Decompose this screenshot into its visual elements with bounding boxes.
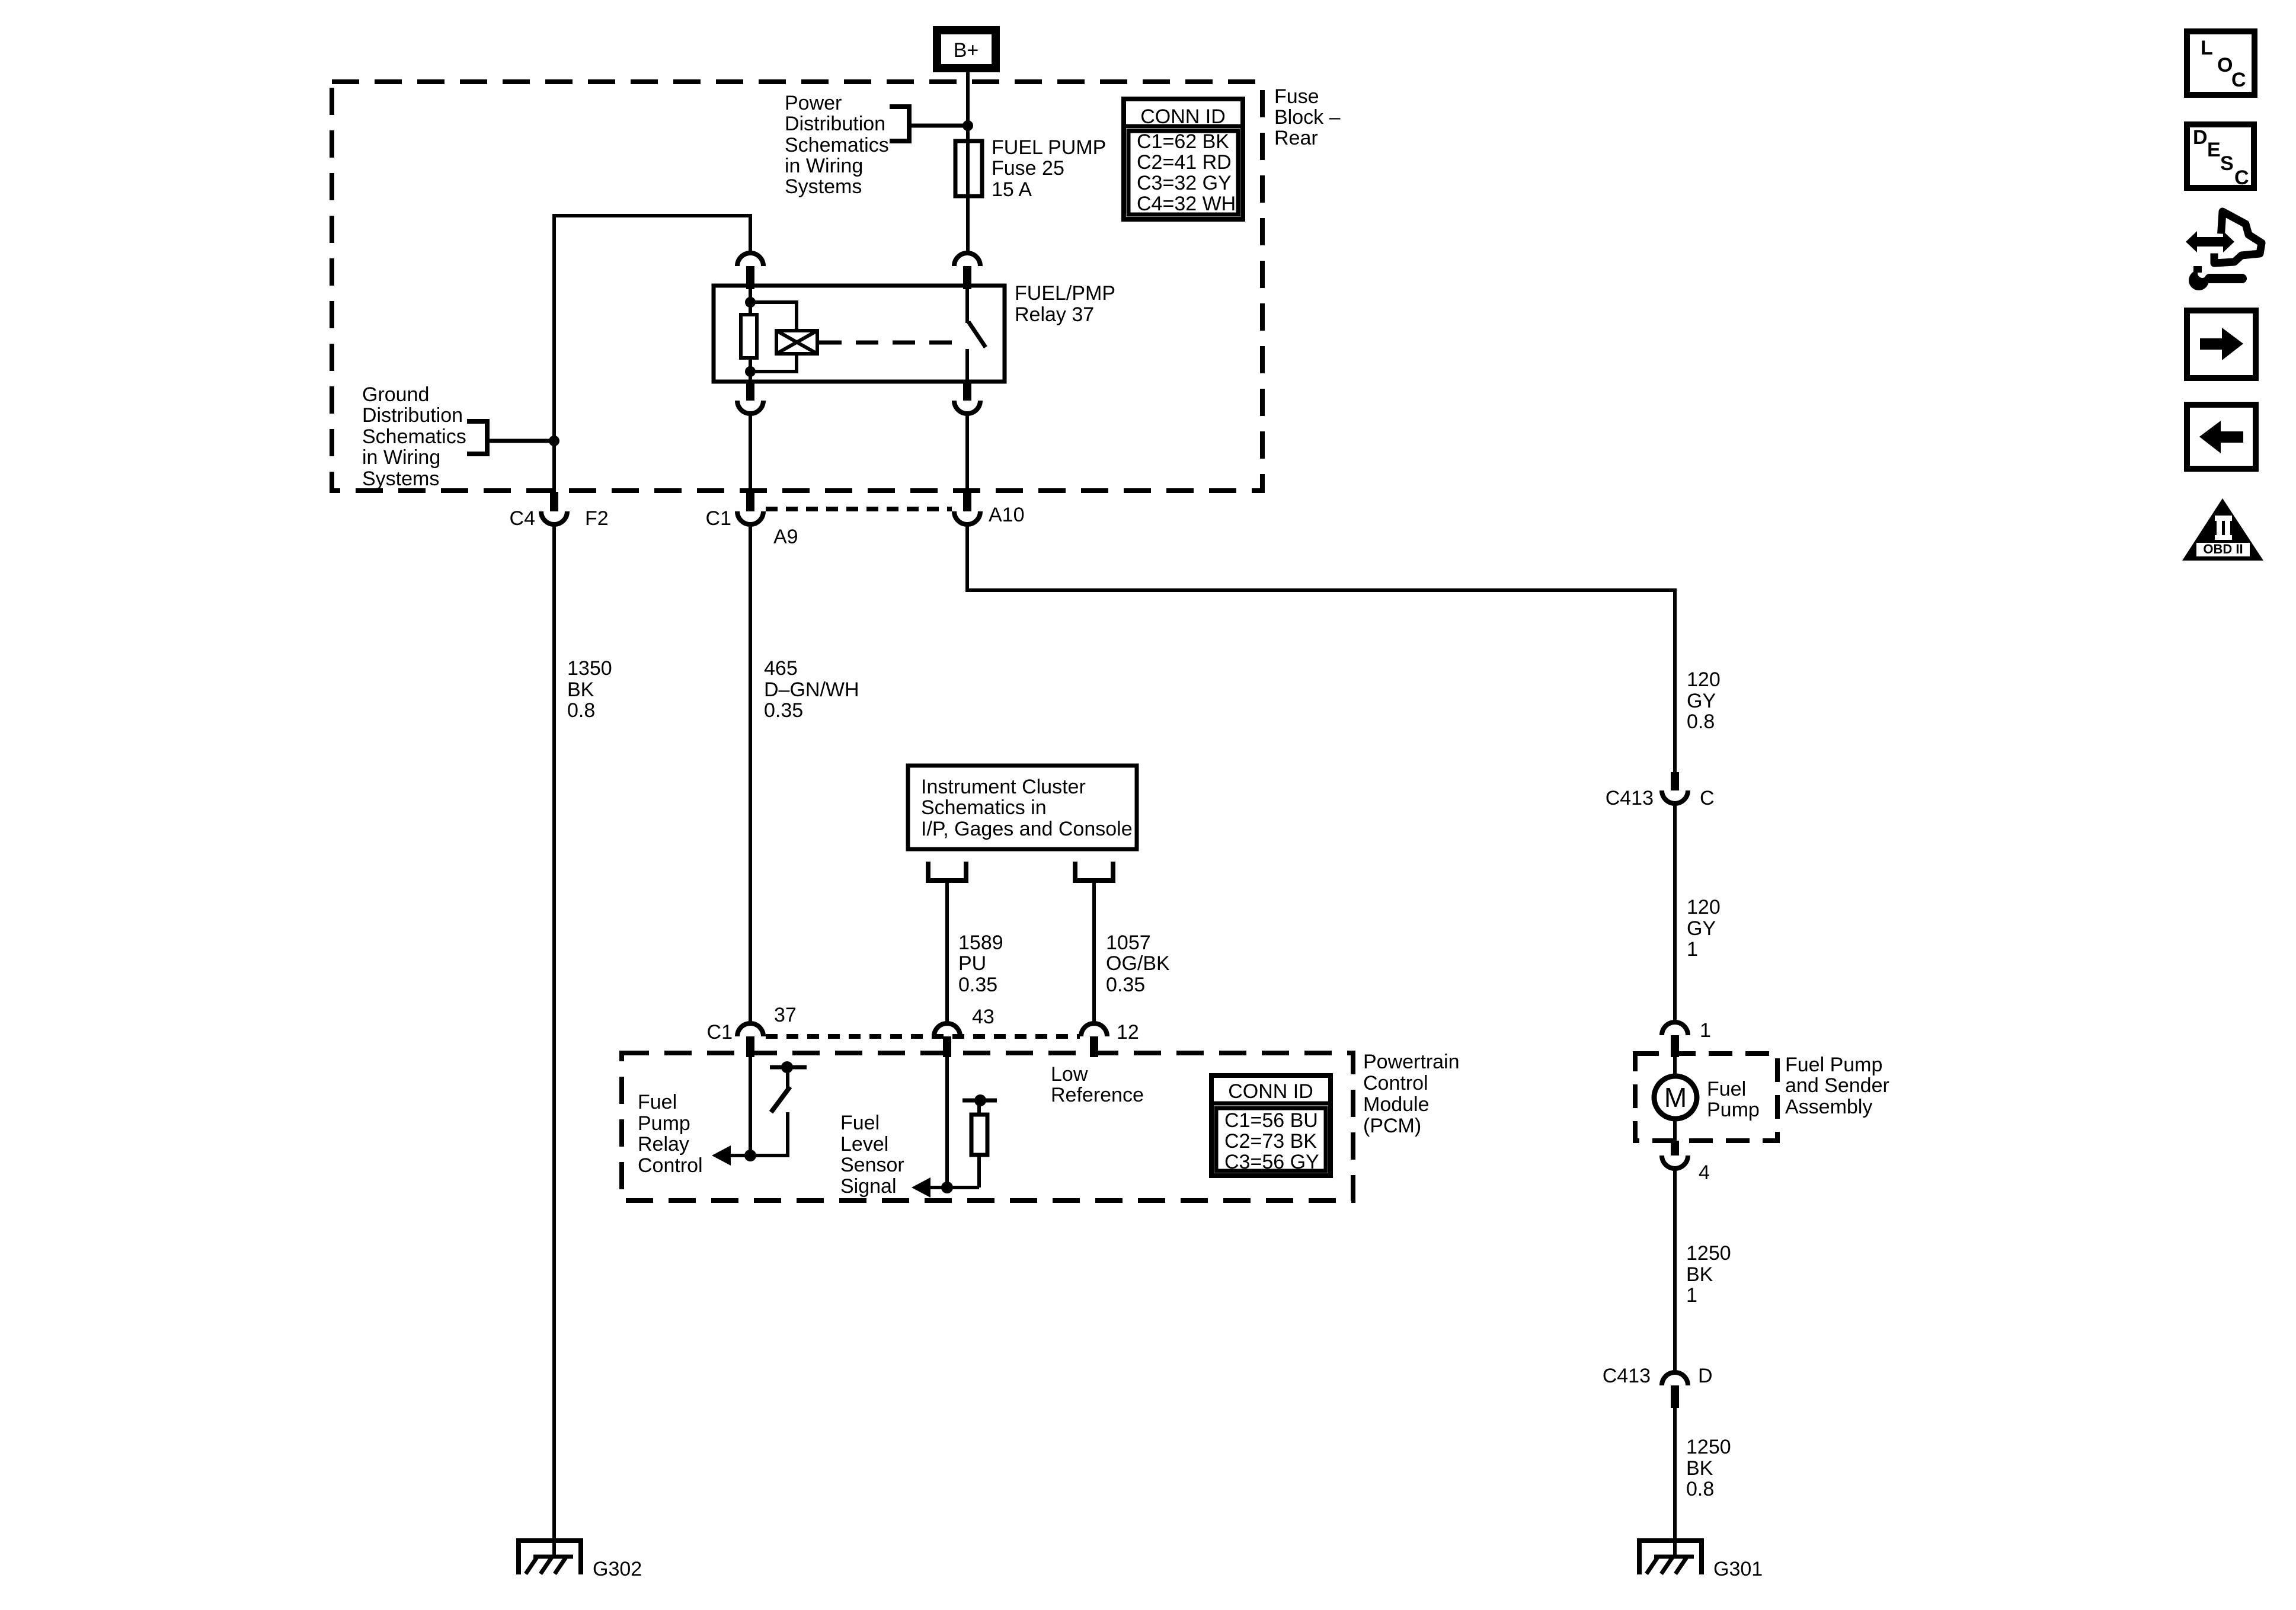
junction node relay control [744,1150,756,1161]
svg-text:Distribution: Distribution [362,404,463,427]
svg-text:Control: Control [1363,1072,1428,1094]
wire PCM pin 37 internal [749,1057,752,1156]
wire label circuit 465 D-GN/WH 0.35 [764,657,859,722]
relay coil top pin stub [746,266,754,289]
svg-text:Sensor: Sensor [840,1154,904,1176]
connector arc relay switch bottom [954,401,980,414]
svg-text:Signal: Signal [840,1175,897,1198]
wire fuse to relay switch [966,196,970,253]
svg-text:C: C [2234,167,2249,189]
PCM relay driver switch [731,1061,807,1157]
svg-text:G301: G301 [1713,1558,1763,1580]
power node B+ [937,30,996,68]
svg-text:1: 1 [1687,938,1698,961]
svg-text:Control: Control [638,1154,703,1177]
wire PCM pin 43 internal [945,1057,949,1188]
svg-text:D: D [2193,126,2208,149]
svg-text:1350: 1350 [567,657,612,680]
svg-text:1: 1 [1700,1019,1711,1042]
wire relay coil to fuse block edge [749,414,752,493]
connector A10 arc [954,511,980,524]
svg-text:Pump: Pump [638,1112,690,1135]
arrow fuel level sensor signal [912,1177,930,1198]
svg-text:M: M [1664,1082,1687,1113]
svg-text:in Wiring: in Wiring [785,155,863,177]
connector ID table (fuse block) [1124,99,1243,219]
svg-text:Schematics in: Schematics in [921,796,1047,819]
svg-text:Schematics: Schematics [362,425,466,448]
relay U37 box [714,286,1005,382]
wire label circuit 1250 BK 1 [1686,1242,1731,1307]
svg-text:C1=56 BU: C1=56 BU [1224,1109,1318,1132]
svg-text:Fuel: Fuel [638,1091,677,1113]
ground symbol G302 [516,1541,583,1574]
pump pin 4 stub [1671,1141,1679,1156]
svg-text:0.35: 0.35 [1106,974,1145,996]
junction node fuel level signal [941,1182,953,1193]
junction node on B+ feed [962,120,973,131]
svg-text:120: 120 [1687,896,1721,918]
svg-text:Systems: Systems [785,175,862,198]
svg-text:1057: 1057 [1106,932,1151,954]
svg-text:C1: C1 [706,507,731,530]
wire C4 ground run [552,524,556,1541]
instrument cluster box [908,766,1137,849]
wire B+ down to fuse [966,72,970,253]
wire relay switch to fuse block edge [965,414,969,493]
dashed connector line A9-A10 [766,507,952,511]
svg-text:C3=32 GY: C3=32 GY [1137,172,1232,194]
wire label circuit 1057 OG/BK 0.35 [1106,932,1170,996]
relay switch top pin stub [963,266,971,289]
wire pump pin 4 to C413 D [1673,1169,1677,1372]
wire C413 D to ground [1673,1408,1677,1541]
connector C4/F2 arc [541,511,567,524]
relay coil wire [749,288,752,315]
relay solenoid element [776,331,817,354]
svg-text:1250: 1250 [1686,1436,1731,1458]
svg-text:15 A: 15 A [992,178,1032,201]
svg-text:A9: A9 [773,526,798,548]
label: Ground Distribution Schematics in Wiring Systems [362,383,466,490]
pump pin 1 stub [1671,1035,1679,1057]
label: Low Reference [1051,1063,1144,1106]
connector ID table (PCM) [1211,1076,1331,1176]
svg-text:Block –: Block – [1274,106,1341,129]
C413 D stub [1671,1385,1679,1408]
svg-text:C1: C1 [707,1021,733,1044]
svg-text:O: O [2217,54,2233,76]
wire cluster pin 12 [1092,881,1096,1023]
svg-text:PU: PU [958,952,986,975]
wire label circuit 1250 BK 0.8 [1686,1436,1731,1500]
svg-text:Systems: Systems [362,468,439,490]
svg-text:D–GN/WH: D–GN/WH [764,678,859,701]
relay coil junction top [745,297,756,308]
svg-text:465: 465 [764,657,798,680]
svg-text:OG/BK: OG/BK [1106,952,1170,975]
PCM fuel level sense element [930,1094,997,1188]
svg-text:in Wiring: in Wiring [362,446,440,469]
connector C413 D arc [1662,1372,1688,1385]
svg-text:Relay: Relay [638,1133,689,1156]
wire ground-branch top run [554,216,750,493]
svg-text:1250: 1250 [1686,1242,1731,1265]
svg-text:A10: A10 [989,504,1025,526]
svg-text:S: S [2220,152,2234,175]
relay solenoid return wire [750,354,797,372]
relay switch wire bottom [965,349,969,382]
PCM pin 12 stub [1090,1036,1098,1057]
stub above C413 C [1671,772,1679,790]
svg-text:Low: Low [1051,1063,1088,1086]
svg-text:0.8: 0.8 [1686,1478,1714,1500]
fuse block exit stub C4 [550,492,558,511]
svg-text:FUEL PUMP: FUEL PUMP [992,136,1106,159]
svg-text:Module: Module [1363,1093,1430,1116]
svg-text:Instrument Cluster: Instrument Cluster [921,776,1086,798]
label: Powertrain Control Module (PCM) [1363,1051,1460,1137]
svg-text:37: 37 [774,1004,797,1026]
svg-text:C413: C413 [1603,1365,1651,1387]
sidebar icon OBD II triangle [2182,498,2263,561]
svg-text:0.8: 0.8 [567,699,595,722]
connector arc relay coil top [737,253,763,266]
connector arc pump pin 1 [1662,1022,1688,1035]
relay switch fixed wire top [965,286,969,323]
fuse FUEL PUMP Fuse 25 15A [955,141,982,196]
connector arc PCM pin 37 [737,1023,763,1036]
svg-text:C4=32 WH: C4=32 WH [1137,193,1236,215]
wire label circuit 1589 PU 0.35 [958,932,1003,996]
svg-text:Ground: Ground [362,383,429,406]
label: FUEL PUMP Fuse 25 15 A [992,136,1106,201]
svg-text:Level: Level [840,1133,888,1156]
svg-text:Fuel: Fuel [1707,1078,1746,1100]
wire bracket to ground wire junction [487,439,554,443]
svg-text:OBD II: OBD II [2203,542,2243,556]
wire C1 run to PCM [749,524,752,1023]
connector arc PCM pin 43 [934,1023,960,1036]
sidebar icon back arrow [2187,405,2256,469]
instrument cluster connector bracket left [928,862,966,881]
svg-text:C2=41 RD: C2=41 RD [1137,151,1232,174]
svg-text:BK: BK [1686,1457,1713,1480]
svg-text:Reference: Reference [1051,1084,1144,1106]
sidebar icon diagnostic wrench [2186,212,2262,290]
svg-text:D: D [1698,1365,1713,1387]
label: Fuel Pump [1707,1078,1760,1121]
wire bracket to junction [909,124,968,128]
junction node on ground wire [549,436,559,446]
svg-text:E: E [2207,139,2221,161]
relay coil bottom pin stub [746,382,754,401]
svg-text:0.8: 0.8 [1687,710,1715,733]
PCM pin 43 stub [943,1036,951,1057]
svg-text:F2: F2 [585,507,609,530]
svg-text:120: 120 [1687,668,1721,691]
relay switch bottom pin stub [963,382,971,401]
relay coil resistor [741,315,757,358]
svg-text:CONN ID: CONN ID [1140,105,1226,128]
connector arc relay switch top [954,253,980,266]
svg-text:Assembly: Assembly [1785,1096,1872,1118]
label: Fuel Level Sensor Signal [840,1112,904,1198]
svg-text:B+: B+ [954,39,979,62]
svg-text:BK: BK [567,678,594,701]
svg-text:Relay 37: Relay 37 [1015,303,1094,326]
fuse block exit stub C1 [746,492,754,511]
svg-text:Distribution: Distribution [785,113,885,135]
fuse block rear dashed border [332,82,1262,491]
label: FUEL/PMP Relay 37 [1015,282,1115,326]
fuse block exit stub A10 [963,492,971,511]
sidebar icon forward arrow [2187,311,2256,378]
svg-text:Fuel: Fuel [840,1112,880,1134]
svg-text:0.35: 0.35 [764,699,803,722]
svg-text:I/P, Gages and Console: I/P, Gages and Console [921,818,1133,840]
wire cluster pin 43 [945,881,949,1023]
relay coil junction bottom [745,366,756,377]
connector C413 C arc [1662,790,1688,804]
svg-text:C2=73 BK: C2=73 BK [1224,1130,1317,1153]
svg-text:Fuel Pump: Fuel Pump [1785,1054,1882,1076]
svg-text:43: 43 [972,1006,994,1028]
PCM dashed border [622,1053,1353,1201]
label: Instrument Cluster Schematics in I/P, Gages and Console [921,776,1133,840]
svg-text:CONN ID: CONN ID [1228,1080,1313,1103]
svg-text:Rear: Rear [1274,127,1318,149]
svg-text:Fuse: Fuse [1274,85,1319,108]
svg-text:and Sender: and Sender [1785,1074,1889,1097]
ground symbol G301 [1637,1541,1704,1574]
svg-text:Powertrain: Powertrain [1363,1051,1460,1073]
wire label circuit 120 GY 1 [1687,896,1721,961]
wire label circuit 1350 BK 0.8 [567,657,612,722]
wire label circuit 120 GY 0.8 [1687,668,1721,733]
relay switch blade [968,322,986,347]
relay coil wire bottom [749,358,752,384]
svg-text:Pump: Pump [1707,1099,1760,1121]
wire C413C to pump pin 1 [1673,804,1677,1023]
wire A10 run to fuel pump column [967,524,1675,772]
label: Fuse Block - Rear [1274,85,1341,149]
svg-text:12: 12 [1117,1021,1139,1044]
svg-text:Schematics: Schematics [785,134,889,156]
svg-text:C3=56 GY: C3=56 GY [1224,1151,1319,1173]
svg-text:GY: GY [1687,690,1716,712]
svg-text:C413: C413 [1606,787,1654,809]
svg-text:L: L [2201,37,2213,59]
instrument cluster connector bracket right [1075,862,1113,881]
svg-text:C: C [1700,787,1715,809]
svg-text:(PCM): (PCM) [1363,1115,1421,1137]
svg-text:BK: BK [1686,1263,1713,1286]
sidebar icon DESC [2187,124,2254,189]
svg-text:4: 4 [1699,1161,1710,1184]
connector C1/A9 arc [737,511,763,524]
relay solenoid branch wire [750,302,797,331]
fuel pump motor M [1654,1057,1697,1141]
label: Fuel Pump Relay Control [638,1091,703,1177]
arrow fuel pump relay control [712,1145,731,1166]
power distribution callout bracket [890,107,909,141]
dotted connector line C1 37-43-12 [766,1034,1080,1039]
ground distribution callout bracket [467,421,487,454]
svg-text:FUEL/PMP: FUEL/PMP [1015,282,1115,305]
connector arc PCM pin 12 [1081,1023,1107,1036]
svg-text:1: 1 [1686,1284,1697,1307]
svg-text:1589: 1589 [958,932,1003,954]
svg-text:0.35: 0.35 [958,974,997,996]
connector arc pump pin 4 [1662,1156,1688,1169]
svg-text:GY: GY [1687,917,1716,940]
svg-text:Fuse 25: Fuse 25 [992,157,1064,180]
label: Fuel Pump and Sender Assembly [1785,1054,1889,1118]
svg-text:C1=62 BK: C1=62 BK [1137,130,1229,153]
PCM pin 37 stub [746,1036,754,1057]
sidebar icon LOC [2187,31,2255,95]
svg-text:C: C [2231,69,2246,91]
connector arc relay coil bottom [737,401,763,414]
relay actuator dashed link [819,341,955,345]
svg-text:Power: Power [785,92,842,114]
fuel pump assembly dashed box [1635,1054,1777,1141]
svg-text:G302: G302 [593,1558,642,1580]
label: Power Distribution Schematics in Wiring Systems [785,92,889,198]
svg-text:C4: C4 [510,507,535,530]
